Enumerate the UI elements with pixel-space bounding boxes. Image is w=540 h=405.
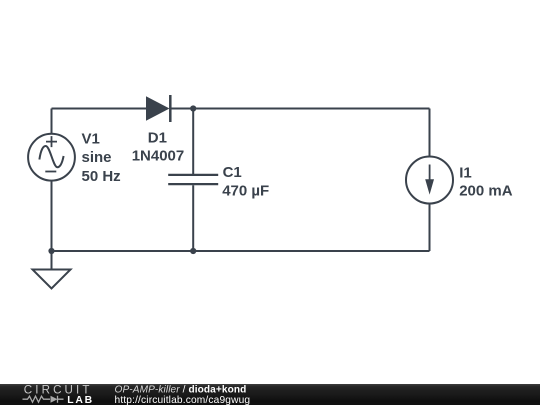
ground xyxy=(33,270,71,289)
junction dot bottom left (ground node) xyxy=(48,248,54,254)
svg-text:C1: C1 xyxy=(223,164,242,181)
label V1 value xyxy=(82,130,121,185)
wire left vertical upper (top node to V1 + terminal) xyxy=(51,109,53,135)
current source I1 xyxy=(406,157,453,204)
svg-text:sine: sine xyxy=(82,149,112,166)
wire ground stub xyxy=(51,251,53,270)
svg-text:50 Hz: 50 Hz xyxy=(82,168,121,185)
svg-text:V1: V1 xyxy=(82,130,100,147)
capacitor C1 xyxy=(168,175,218,184)
footer bar xyxy=(0,384,540,405)
svg-text:LAB: LAB xyxy=(67,395,94,405)
diode D1 xyxy=(146,95,170,122)
wire capacitor branch upper (node A to C1 top plate) xyxy=(192,109,194,175)
voltage source V1 xyxy=(28,134,75,181)
wire bottom horizontal xyxy=(52,250,430,252)
label C1 value xyxy=(222,164,269,199)
wire top-left horizontal (V1 top to D1 anode) xyxy=(52,108,147,110)
svg-text:http://circuitlab.com/ca9gwug: http://circuitlab.com/ca9gwug xyxy=(115,395,251,405)
wire right vertical upper (top wire to I1) xyxy=(429,109,431,158)
wire capacitor branch lower (C1 bottom plate to bottom wire) xyxy=(192,185,194,251)
junction dot bottom capacitor xyxy=(190,248,196,254)
label D1 value xyxy=(132,129,185,164)
CircuitLab logo wordmark xyxy=(24,384,94,405)
node A junction dot (top, D1-C1) xyxy=(190,105,196,111)
CircuitLab logo resistor-diode glyph xyxy=(23,396,64,403)
svg-text:D1: D1 xyxy=(148,129,167,146)
svg-text:470 µF: 470 µF xyxy=(222,182,269,199)
svg-text:1N4007: 1N4007 xyxy=(132,148,185,165)
svg-text:200 mA: 200 mA xyxy=(459,183,513,200)
wire right vertical lower (I1 to bottom wire) xyxy=(429,204,431,252)
wire top-right horizontal (D1 cathode to I1 top) xyxy=(170,108,430,110)
wire left vertical lower (V1 - terminal to bottom node) xyxy=(51,181,53,252)
label I1 value xyxy=(459,164,513,199)
svg-text:I1: I1 xyxy=(459,164,472,181)
